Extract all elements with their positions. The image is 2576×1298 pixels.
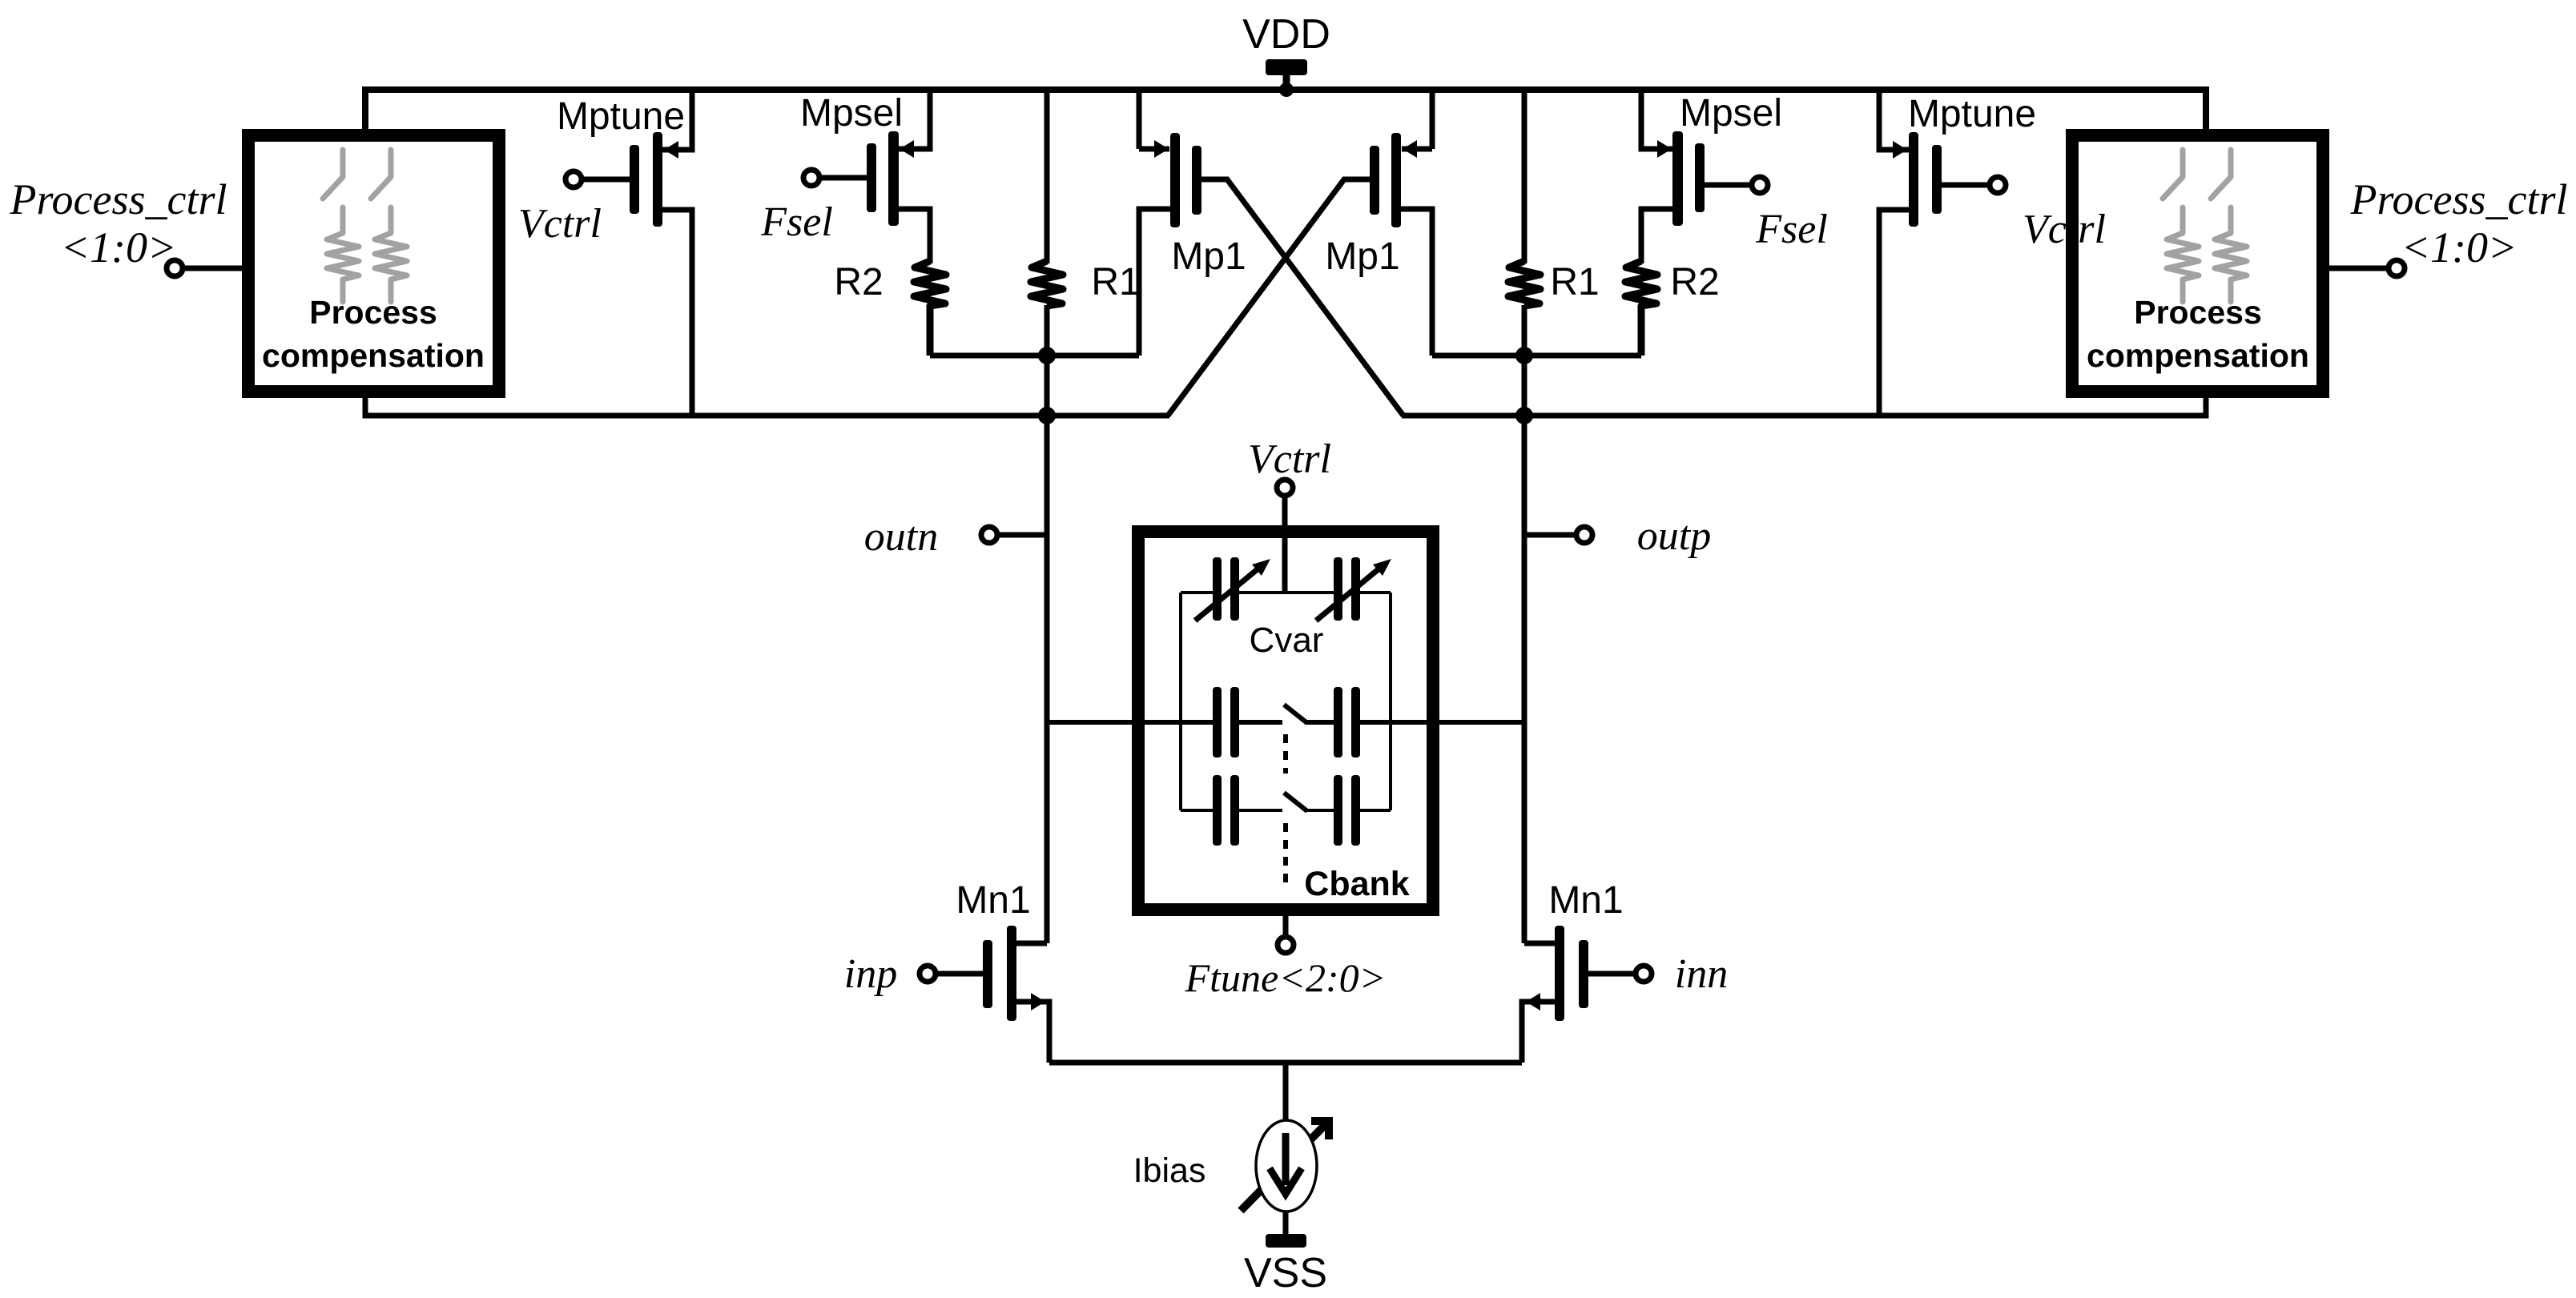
node VDD junction [1279,82,1294,97]
capacitor Cvar (left varactor) [1195,557,1270,621]
wire Cbank bottom stub [1283,916,1289,935]
svg-text:Cbank: Cbank [1304,865,1410,903]
terminal Process_ctrl (left) [167,260,183,276]
svg-text:R2: R2 [834,261,883,303]
svg-text:Mptune: Mptune [557,95,685,138]
svg-text:Ibias: Ibias [1133,1151,1206,1190]
svg-text:Process: Process [309,294,437,331]
wire right rail R1 down to Mn1 drain [1522,305,1527,943]
wire dashed continuation (between rows) [1283,734,1288,774]
svg-text:inn: inn [1675,951,1728,997]
wire top VDD bus [365,90,2206,135]
transistor Mptune (left PMOS) [566,91,692,416]
terminal outp [1576,527,1592,543]
switch row2 blade [1284,793,1307,811]
block Process compensation (left) [248,135,499,392]
svg-text:Mn1: Mn1 [1548,879,1623,922]
transistor Mptune (right PMOS) [1879,91,2006,416]
wire right box to terminal [2323,266,2389,271]
switch S1a (gray, left box) [323,150,407,302]
svg-text:inp: inp [844,951,897,997]
terminal Process_ctrl (right) [2389,260,2405,276]
gray switches and resistors (right box) [2163,150,2247,302]
resistor R1 (right) [1522,90,1527,263]
wire R2-R1-Mp1 node (left, y=444) [930,353,1139,359]
wire left rail R1 down to Mn1 drain [1044,305,1050,943]
wire terminal to left box [185,266,248,271]
block Process compensation (right) [2072,135,2323,392]
node left outn junction [1038,407,1056,424]
svg-text:VDD: VDD [1242,11,1330,58]
capacitor bank row1 right cap [1334,687,1342,758]
transistor Mn1 (right NMOS) [1522,926,1652,1063]
power symbol VSS [1266,1234,1306,1248]
svg-text:Process: Process [2134,294,2262,331]
terminal Ftune [1278,937,1294,953]
svg-text:Mpsel: Mpsel [800,92,903,135]
svg-text:Vctrl: Vctrl [1248,436,1331,482]
block Cbank box [1138,532,1433,910]
capacitor bank row1 left cap [1213,687,1222,758]
wire dashed continuation (below row2) [1283,823,1288,887]
svg-text:R1: R1 [1550,261,1599,303]
terminal Vctrl (center) [1277,480,1293,496]
wire tail stub to Ibias [1283,1063,1289,1122]
resistor Rg2 (gray, left box) [375,207,407,302]
svg-text:Vctrl: Vctrl [2023,207,2106,252]
terminal outn [981,527,997,543]
svg-text:Fsel: Fsel [760,199,833,245]
wire inner frame bottom edge segments [1181,809,1391,812]
wire tail bus [1049,1060,1522,1066]
wire left box bottom stub / outn rail start [365,392,1169,416]
svg-text:outp: outp [1637,513,1711,559]
resistor R1 (left) [1044,90,1050,263]
svg-text:<1:0>: <1:0> [61,223,177,271]
resistor R2 (right) [1625,261,1657,356]
switch S1b (gray, left box) [371,150,391,199]
svg-text:Mp1: Mp1 [1325,235,1399,278]
wire tank mid line segments [1047,720,1524,725]
svg-text:Cvar: Cvar [1250,621,1324,660]
svg-text:Mp1: Mp1 [1171,235,1246,278]
wire outp rail [1402,392,2206,416]
wire Vctrl stub into Cbank [1282,498,1288,594]
capacitor Cvar (right varactor) [1316,557,1391,621]
resistor Rg1 (gray, left box) [327,207,359,302]
capacitor bank row2 right cap [1334,775,1342,846]
svg-text:<1:0>: <1:0> [2401,223,2518,271]
transistor Mpsel (right PMOS) [1641,91,1768,263]
svg-text:Mpsel: Mpsel [1680,92,1782,135]
capacitor bank row2 left cap [1213,775,1222,846]
svg-text:Ftune<2:0>: Ftune<2:0> [1185,955,1387,1000]
transistor Mn1 (left NMOS) [920,926,1049,1063]
svg-text:Process_ctrl: Process_ctrl [10,175,227,223]
svg-text:Fsel: Fsel [1755,207,1828,252]
switch row1 blade [1284,705,1307,723]
svg-text:R1: R1 [1091,261,1140,303]
power symbol VDD [1266,59,1307,90]
svg-text:Mn1: Mn1 [956,879,1030,922]
wire Mp1-R1-R2 node (right, y=444) [1432,353,1641,359]
transistor Mpsel (left PMOS) [803,91,930,263]
svg-text:Vctrl: Vctrl [518,201,602,247]
wire inner frame top edge segments [1181,591,1391,594]
current source Ibias [1241,1120,1329,1212]
wire outn to left rail [1000,532,1047,538]
svg-text:R2: R2 [1670,261,1719,303]
svg-text:Process_ctrl: Process_ctrl [2350,175,2568,223]
wire outp to right rail [1524,532,1574,538]
svg-text:compensation: compensation [2087,337,2309,374]
svg-text:Mptune: Mptune [1908,93,2036,135]
node left drain junction [1038,347,1056,364]
wire inner frame left edge [1179,593,1182,810]
transistor Mp1 (right of cross pair, PMOS) [1168,90,1432,416]
node right drain junction [1515,347,1533,364]
svg-text:outn: outn [864,514,938,560]
wire inner frame right edge [1389,593,1392,810]
svg-text:VSS: VSS [1244,1250,1327,1296]
resistor R2 (left) [914,261,946,356]
transistor Mp1 (left of cross pair, PMOS) [1139,90,1403,416]
wire Ibias to VSS [1283,1212,1289,1236]
svg-text:compensation: compensation [262,337,485,374]
node right outp junction [1515,407,1533,424]
